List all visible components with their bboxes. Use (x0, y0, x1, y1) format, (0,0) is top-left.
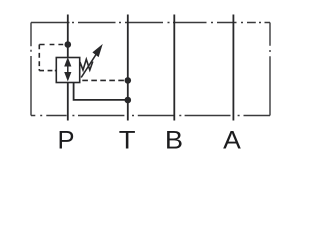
port line P (vertical, passes through valve) (67, 15, 69, 121)
enclosure bottom border (dash-dot) (31, 115, 270, 117)
junction dot on T line (tank return) (125, 97, 132, 104)
enclosure top border (dash-dot) (31, 22, 270, 24)
svg-text:T: T (119, 126, 136, 155)
svg-text:A: A (223, 127, 242, 154)
pilot line (dashed) from P dot to valve left side (39, 45, 63, 71)
junction dot on T line (drain) (125, 77, 132, 84)
flow path double arrow inside valve (65, 59, 70, 79)
port line B (vertical) (173, 15, 175, 121)
svg-text:P: P (57, 127, 74, 155)
enclosure right border (dash-dot) (269, 23, 271, 116)
drain line (dashed) from spring side to T (82, 79, 125, 81)
relief valve body V1 (square) (56, 58, 79, 83)
spring (zigzag, right of valve) (80, 59, 93, 70)
junction dot on P line (65, 41, 72, 48)
enclosure left border (dash-dot) (30, 23, 32, 116)
adjustment arrow across spring (81, 46, 101, 77)
tank return line (solid) from valve outlet to T (74, 83, 128, 100)
port line T (vertical) (127, 15, 129, 121)
port line A (vertical) (232, 15, 234, 121)
svg-text:B: B (165, 125, 183, 154)
